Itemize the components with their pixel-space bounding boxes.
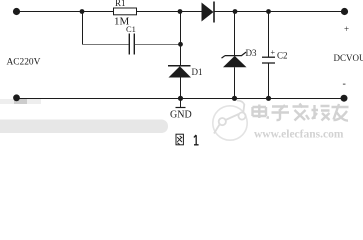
wire: node A down: [82, 12, 84, 45]
wire: top rail left: [17, 11, 114, 13]
node D junction: [266, 9, 271, 14]
wire: D1 to bottom rail: [180, 78, 182, 100]
wire: node B to diode: [180, 11, 202, 13]
wire: C1 branch left: [82, 44, 129, 46]
diode D2 (series rectifier): [202, 2, 215, 23]
svg-text:D1: D1: [192, 67, 203, 77]
wire: node D to DC+ terminal: [269, 11, 345, 13]
node: C2 bottom junction: [266, 96, 271, 101]
node C junction: [233, 9, 238, 14]
watermark text CJK: [253, 104, 349, 121]
wire: diode to node C: [215, 11, 236, 13]
caption 图 1: [176, 134, 199, 145]
watermark logo: [213, 101, 247, 141]
node A junction: [80, 9, 85, 14]
wire: C1 branch right: [135, 44, 180, 46]
node: C1/D1 junction: [178, 42, 183, 47]
diode D1: [168, 66, 191, 78]
wire: junction down to D1: [180, 44, 182, 66]
wire: node C to node D: [235, 11, 269, 13]
wire: node D down to C2: [268, 12, 270, 58]
terminal: DC output +: [341, 8, 348, 15]
ground: [176, 99, 186, 108]
svg-text:www.elecfans.com: www.elecfans.com: [254, 129, 344, 141]
svg-text:C2: C2: [277, 51, 288, 61]
svg-text:AC220V: AC220V: [7, 58, 41, 68]
node: GND junction: [178, 96, 183, 101]
wire: C2 to bottom rail: [268, 63, 270, 99]
svg-text:GND: GND: [170, 110, 192, 121]
svg-text:DCVOUT: DCVOUT: [334, 53, 363, 63]
terminal: AC input bottom: [13, 94, 20, 101]
node B junction: [178, 9, 183, 14]
wire: bottom rail: [17, 98, 345, 100]
svg-text:+: +: [271, 48, 276, 57]
wire: node B down to junction: [180, 12, 182, 45]
svg-text:-: -: [343, 79, 346, 90]
svg-text:C1: C1: [126, 24, 136, 34]
svg-text:D3: D3: [246, 48, 257, 58]
terminal: DC output -: [341, 95, 348, 102]
wire: node C down to D3: [234, 12, 236, 57]
zener diode D3: [222, 52, 247, 67]
wire: D3 to bottom rail: [234, 67, 236, 99]
terminal: AC input top: [13, 8, 20, 15]
wire: R1 to node B: [137, 11, 181, 13]
capacitor C2 (electrolytic): [262, 57, 275, 63]
capacitor C1: [129, 34, 134, 55]
svg-text:R1: R1: [115, 0, 126, 8]
resistor R1: [114, 8, 137, 15]
node: D3 bottom junction: [232, 96, 237, 101]
svg-text:+: +: [344, 24, 349, 34]
watermark band left: [0, 99, 168, 134]
